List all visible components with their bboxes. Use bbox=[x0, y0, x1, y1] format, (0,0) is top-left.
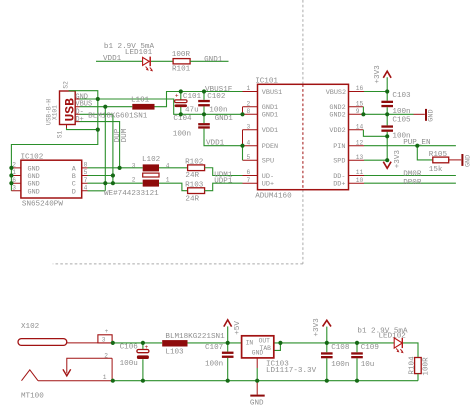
capacitor C102 100n bbox=[198, 92, 227, 115]
svg-text:VBUS1: VBUS1 bbox=[262, 89, 282, 97]
wire IC101 pin12 PUP_EN bbox=[364, 145, 456, 147]
svg-text:DD+: DD+ bbox=[333, 181, 345, 189]
svg-text:C104: C104 bbox=[173, 115, 192, 123]
label VBUS1F bbox=[205, 86, 233, 94]
wire L101 to VBUS1F (IC101 pin1) bbox=[155, 92, 258, 107]
svg-text:SPD: SPD bbox=[333, 158, 345, 166]
wire IC102 pinC row to L102 pin2 bbox=[88, 182, 143, 184]
node DUP at row C bbox=[111, 181, 115, 185]
wire IC102 pinB row bbox=[88, 175, 113, 177]
svg-text:11: 11 bbox=[356, 169, 364, 176]
svg-text:+: + bbox=[175, 93, 179, 100]
svg-text:VDD1: VDD1 bbox=[262, 127, 278, 135]
node +5V at C107 bbox=[226, 341, 230, 345]
wire +3V3 vertical to pin13 row bbox=[386, 136, 388, 160]
node IC102 gnd pin2 bbox=[9, 166, 13, 170]
node +5V rail at X102 bbox=[111, 341, 115, 345]
svg-text:VBUS1F: VBUS1F bbox=[205, 86, 233, 94]
capacitor C103 100n bbox=[381, 92, 411, 117]
svg-text:WE#744233121: WE#744233121 bbox=[104, 190, 159, 198]
wire R102 to IC101 UD- bbox=[205, 168, 243, 176]
node +3V3 at C108 bbox=[325, 341, 329, 345]
capacitor C108 100n bbox=[321, 343, 350, 381]
IC102 SN65240PW bbox=[11, 153, 87, 208]
ground GND (at R105) bbox=[449, 154, 473, 167]
connector X102 barrel jack bbox=[18, 323, 113, 381]
svg-text:100n: 100n bbox=[205, 360, 223, 368]
ground GND (bottom) bbox=[250, 381, 265, 407]
wire IC101 pin14 bend to C105 bottom bbox=[363, 130, 387, 137]
svg-text:16: 16 bbox=[356, 85, 364, 92]
svg-text:100R: 100R bbox=[422, 357, 430, 376]
svg-text:GND: GND bbox=[252, 350, 264, 357]
node GND2 at pin15 bend bbox=[361, 112, 365, 116]
svg-text:14: 14 bbox=[356, 123, 364, 130]
svg-text:D: D bbox=[72, 188, 76, 196]
wire L102 pin1 to R103 bbox=[159, 183, 188, 190]
svg-text:5: 5 bbox=[247, 154, 251, 161]
svg-text:24R: 24R bbox=[185, 172, 199, 180]
node gnd rail at C107 bbox=[226, 379, 230, 383]
svg-text:GND: GND bbox=[28, 188, 40, 196]
svg-text:1: 1 bbox=[247, 85, 251, 92]
svg-text:6: 6 bbox=[247, 169, 251, 176]
isolation barrier dashed line (vertical, gray above box) bbox=[302, 0, 304, 84]
capacitor C101 47u bbox=[175, 92, 202, 115]
svg-text:PDEN: PDEN bbox=[262, 143, 278, 151]
svg-text:+: + bbox=[105, 328, 109, 335]
svg-text:C109: C109 bbox=[361, 344, 380, 352]
svg-text:100n: 100n bbox=[331, 361, 349, 369]
svg-text:VDD2: VDD2 bbox=[329, 127, 345, 135]
svg-text:C107: C107 bbox=[205, 344, 223, 352]
node +3V3 at pin16 bbox=[385, 89, 389, 93]
svg-text:C105: C105 bbox=[392, 117, 411, 125]
wire VBUS to L101 bbox=[80, 106, 133, 108]
label DUP bbox=[114, 128, 122, 142]
svg-text:VBUS2: VBUS2 bbox=[326, 89, 346, 97]
wire GND2 row to GND symbol bbox=[364, 113, 414, 115]
svg-text:1: 1 bbox=[166, 176, 170, 183]
svg-text:L101: L101 bbox=[131, 96, 150, 104]
supply +3V3 (up arrow, top) bbox=[374, 65, 391, 84]
svg-text:BLM18KG221SN1: BLM18KG221SN1 bbox=[165, 333, 225, 341]
svg-text:L102: L102 bbox=[142, 156, 161, 164]
label LED102 bbox=[379, 332, 407, 340]
svg-text:10: 10 bbox=[356, 177, 364, 184]
svg-text:VDD1: VDD1 bbox=[206, 139, 225, 147]
wire IC101 pin16 to +3V3 bbox=[364, 77, 387, 91]
node GND1 at C102 bbox=[202, 112, 206, 116]
mount MT100 bbox=[21, 392, 44, 400]
node VBUS at row C bbox=[103, 181, 107, 185]
svg-text:L103: L103 bbox=[165, 349, 184, 357]
svg-text:MT100: MT100 bbox=[21, 392, 44, 400]
svg-text:S1: S1 bbox=[57, 130, 64, 138]
wire D+ (DUM) down bbox=[80, 122, 120, 168]
IC101 ADUM4160 bbox=[243, 77, 365, 200]
wire IC101 pin13 to +3V3 bbox=[364, 159, 387, 161]
svg-text:DUM: DUM bbox=[121, 128, 129, 142]
wire IC101 pin15 bend to pin9 row bbox=[362, 107, 364, 115]
inductor L101 BLM18KG601SN1 bbox=[88, 96, 154, 120]
svg-text:R101: R101 bbox=[172, 65, 191, 73]
label DM0R bbox=[403, 170, 422, 178]
svg-text:OUT: OUT bbox=[259, 337, 271, 344]
wire +5V rail (top) bbox=[113, 343, 394, 351]
svg-text:GND1: GND1 bbox=[262, 112, 278, 120]
svg-text:3: 3 bbox=[102, 337, 106, 344]
wire IC101 pin3-pin4-pin5 tie bbox=[242, 130, 244, 160]
svg-text:S2: S2 bbox=[63, 81, 70, 89]
svg-text:+3V3: +3V3 bbox=[313, 318, 321, 337]
wire PUP_EN down to R105 bbox=[417, 146, 433, 160]
svg-text:+: + bbox=[145, 344, 149, 351]
label b1 2.9V 5mA (LED102) bbox=[357, 327, 408, 335]
svg-text:4: 4 bbox=[247, 139, 251, 146]
svg-text:IC102: IC102 bbox=[21, 153, 44, 161]
svg-text:C108: C108 bbox=[331, 344, 350, 352]
wire VBUS down (to IC102 C/D clamp) bbox=[88, 107, 106, 191]
isolation barrier dashed line (inside IC101, red) bbox=[302, 84, 304, 189]
node VDD1 at pin4 bbox=[240, 144, 244, 148]
svg-text:2: 2 bbox=[104, 353, 108, 360]
node gnd rail at X102 bbox=[111, 379, 115, 383]
svg-text:DM0R: DM0R bbox=[403, 170, 422, 178]
svg-text:+3V3: +3V3 bbox=[374, 65, 382, 84]
node +3V3 at IC103 out bbox=[278, 341, 282, 345]
USB connector X101 bbox=[46, 81, 93, 138]
svg-text:LED101: LED101 bbox=[125, 49, 153, 57]
resistor R103 24R bbox=[185, 181, 205, 203]
svg-text:R102: R102 bbox=[185, 158, 204, 166]
IC103 LD1117-3.3V regulator bbox=[242, 336, 317, 375]
isolation barrier dashed line (below box + horizontal leg) bbox=[53, 190, 303, 264]
svg-text:PIN: PIN bbox=[333, 143, 345, 151]
label DP0R bbox=[403, 179, 422, 187]
LED LED102 bbox=[394, 338, 403, 353]
svg-text:4: 4 bbox=[84, 185, 88, 192]
svg-text:IN: IN bbox=[246, 340, 254, 347]
svg-text:GND1: GND1 bbox=[215, 115, 234, 123]
svg-text:3: 3 bbox=[132, 162, 136, 169]
wire LED101 to R101 bbox=[151, 60, 173, 62]
supply +5V (up arrow) bbox=[224, 320, 242, 343]
common-mode choke L102 WE#744233121 bbox=[104, 156, 170, 198]
svg-text:C106: C106 bbox=[120, 344, 139, 352]
node VBUS1F at C101 bbox=[179, 89, 183, 93]
LED LED101 bbox=[143, 57, 153, 72]
wire IC101 pin11 DM0R bbox=[364, 175, 456, 177]
resistor R101 100R bbox=[172, 51, 191, 73]
svg-text:12: 12 bbox=[356, 139, 364, 146]
svg-text:R105: R105 bbox=[429, 151, 448, 159]
capacitor C106 100u bbox=[120, 343, 149, 381]
wire ground rail (bottom) bbox=[113, 380, 418, 382]
wire IC101 pin10 DP0R bbox=[364, 182, 456, 184]
svg-text:BLM18KG601SN1: BLM18KG601SN1 bbox=[88, 113, 148, 121]
label GND1 bbox=[204, 56, 223, 64]
svg-text:C103: C103 bbox=[392, 92, 411, 100]
svg-text:R104: R104 bbox=[408, 356, 416, 375]
svg-text:8: 8 bbox=[84, 162, 88, 169]
node IC102 gnd pin6 bbox=[9, 181, 13, 185]
svg-text:+3V3: +3V3 bbox=[394, 150, 402, 169]
wire D- (DUP) down bbox=[80, 114, 113, 183]
svg-text:1: 1 bbox=[103, 374, 107, 381]
svg-text:GND: GND bbox=[428, 109, 436, 121]
svg-text:DP0R: DP0R bbox=[403, 179, 422, 187]
svg-text:100n: 100n bbox=[209, 107, 227, 115]
svg-text:47u: 47u bbox=[185, 107, 199, 115]
svg-text:9: 9 bbox=[356, 108, 360, 115]
node GND2 at C103 bbox=[385, 112, 389, 116]
svg-text:GND: GND bbox=[250, 399, 264, 407]
wire R104 to ground rail bbox=[417, 374, 419, 381]
svg-text:3: 3 bbox=[12, 185, 16, 192]
svg-text:7: 7 bbox=[247, 177, 251, 184]
node DUM at row A bbox=[118, 166, 122, 170]
resistor R104 100R (vertical) bbox=[408, 356, 430, 376]
label UDP1 bbox=[214, 177, 233, 185]
svg-text:15: 15 bbox=[356, 100, 364, 107]
svg-text:13: 13 bbox=[356, 154, 364, 161]
svg-text:100n: 100n bbox=[173, 131, 191, 139]
ground GND (right of pin9) bbox=[414, 109, 436, 122]
svg-text:SN65240PW: SN65240PW bbox=[22, 201, 63, 209]
svg-text:2: 2 bbox=[247, 100, 251, 107]
wire GND pin to GND1 row bbox=[80, 99, 243, 114]
svg-text:ADUM4160: ADUM4160 bbox=[255, 192, 292, 200]
svg-text:GND1: GND1 bbox=[204, 56, 223, 64]
capacitor C107 100n bbox=[205, 343, 234, 381]
svg-text:15k: 15k bbox=[429, 166, 443, 174]
capacitor C109 10u bbox=[351, 343, 379, 381]
svg-text:UD+: UD+ bbox=[262, 181, 274, 189]
node gnd rail at C109 bbox=[355, 379, 359, 383]
svg-text:SPU: SPU bbox=[262, 158, 274, 166]
label GND1 (at C102) bbox=[215, 115, 234, 123]
svg-text:GND2: GND2 bbox=[329, 112, 345, 120]
node VBUS1F at C102 bbox=[202, 89, 206, 93]
node GND1 at pin8 bbox=[240, 112, 244, 116]
svg-text:5: 5 bbox=[84, 169, 88, 176]
svg-text:2: 2 bbox=[132, 176, 136, 183]
node +3V3 at C109 bbox=[355, 341, 359, 345]
node VBUS tap bbox=[103, 105, 107, 109]
node IC102 gnd pin1 bbox=[9, 173, 13, 177]
node PUP_EN bbox=[415, 144, 419, 148]
svg-text:+5V: +5V bbox=[234, 321, 242, 335]
svg-text:3: 3 bbox=[247, 123, 251, 130]
wire net VDD1 to LED101 bbox=[96, 60, 142, 62]
node gnd rail at C108 bbox=[325, 379, 329, 383]
label b1 2.9V 5mA bbox=[104, 43, 155, 51]
label LED101 bbox=[125, 49, 153, 57]
node +3V3 at pin13 bbox=[385, 158, 389, 162]
supply +3V3 (down arrow at SPD) bbox=[383, 150, 402, 169]
svg-text:D+: D+ bbox=[75, 116, 83, 124]
label VDD1 bbox=[103, 55, 122, 63]
svg-text:100u: 100u bbox=[120, 360, 138, 368]
svg-text:VDD1: VDD1 bbox=[103, 55, 122, 63]
node GND at USB gnd pin bbox=[96, 97, 100, 101]
resistor R102 24R bbox=[185, 158, 205, 180]
svg-text:LD1117-3.3V: LD1117-3.3V bbox=[266, 367, 317, 375]
node gnd rail at C106 bbox=[141, 379, 145, 383]
svg-text:GND: GND bbox=[465, 155, 473, 167]
svg-text:100R: 100R bbox=[172, 51, 191, 59]
resistor R105 15k bbox=[429, 151, 449, 174]
svg-text:R103: R103 bbox=[185, 181, 204, 189]
svg-text:X102: X102 bbox=[21, 323, 40, 331]
inductor L103 BLM18KG221SN1 bbox=[162, 333, 225, 357]
svg-text:7: 7 bbox=[84, 177, 88, 184]
wire IC101 pin2 to pin8 bbox=[242, 107, 244, 115]
node DUP at row B bbox=[111, 173, 115, 177]
svg-text:C102: C102 bbox=[207, 93, 226, 101]
node GND1 at C101 bbox=[179, 112, 183, 116]
svg-text:8: 8 bbox=[247, 108, 251, 115]
svg-text:10u: 10u bbox=[361, 361, 375, 369]
label DUM bbox=[121, 128, 129, 142]
wire LED102 to R104 bbox=[403, 343, 418, 358]
wire IC102 pinA row to L102 pin3 bbox=[88, 167, 143, 169]
svg-text:IC101: IC101 bbox=[255, 77, 278, 85]
wire R101 to GND1 bbox=[190, 60, 228, 62]
label VDD1 bbox=[206, 139, 225, 147]
node gnd rail at IC103 bbox=[255, 379, 259, 383]
supply +3V3 (up arrow, bottom section) bbox=[313, 318, 331, 343]
capacitor C104 100n bbox=[173, 114, 243, 145]
svg-text:UDP1: UDP1 bbox=[214, 177, 233, 185]
svg-text:C101: C101 bbox=[183, 93, 202, 101]
svg-text:24R: 24R bbox=[185, 195, 199, 203]
node +5V rail at C106 bbox=[141, 341, 145, 345]
wire R103 to IC101 UD+ bbox=[205, 183, 243, 190]
svg-text:USB-B-H: USB-B-H bbox=[46, 99, 53, 125]
wire L102 pin4 to R102 bbox=[159, 167, 188, 169]
label PUP_EN bbox=[403, 139, 430, 147]
wire IC103 GND pin down bbox=[256, 358, 258, 381]
node S1 shield bbox=[96, 128, 100, 132]
label UDM1 bbox=[214, 171, 233, 179]
svg-text:100n: 100n bbox=[392, 108, 410, 116]
capacitor C105 100n bbox=[381, 114, 411, 140]
node +3V3 at C105 bbox=[385, 134, 389, 138]
wire shield/GND net (S2,S1 to IC102 GND pins) bbox=[11, 91, 97, 191]
